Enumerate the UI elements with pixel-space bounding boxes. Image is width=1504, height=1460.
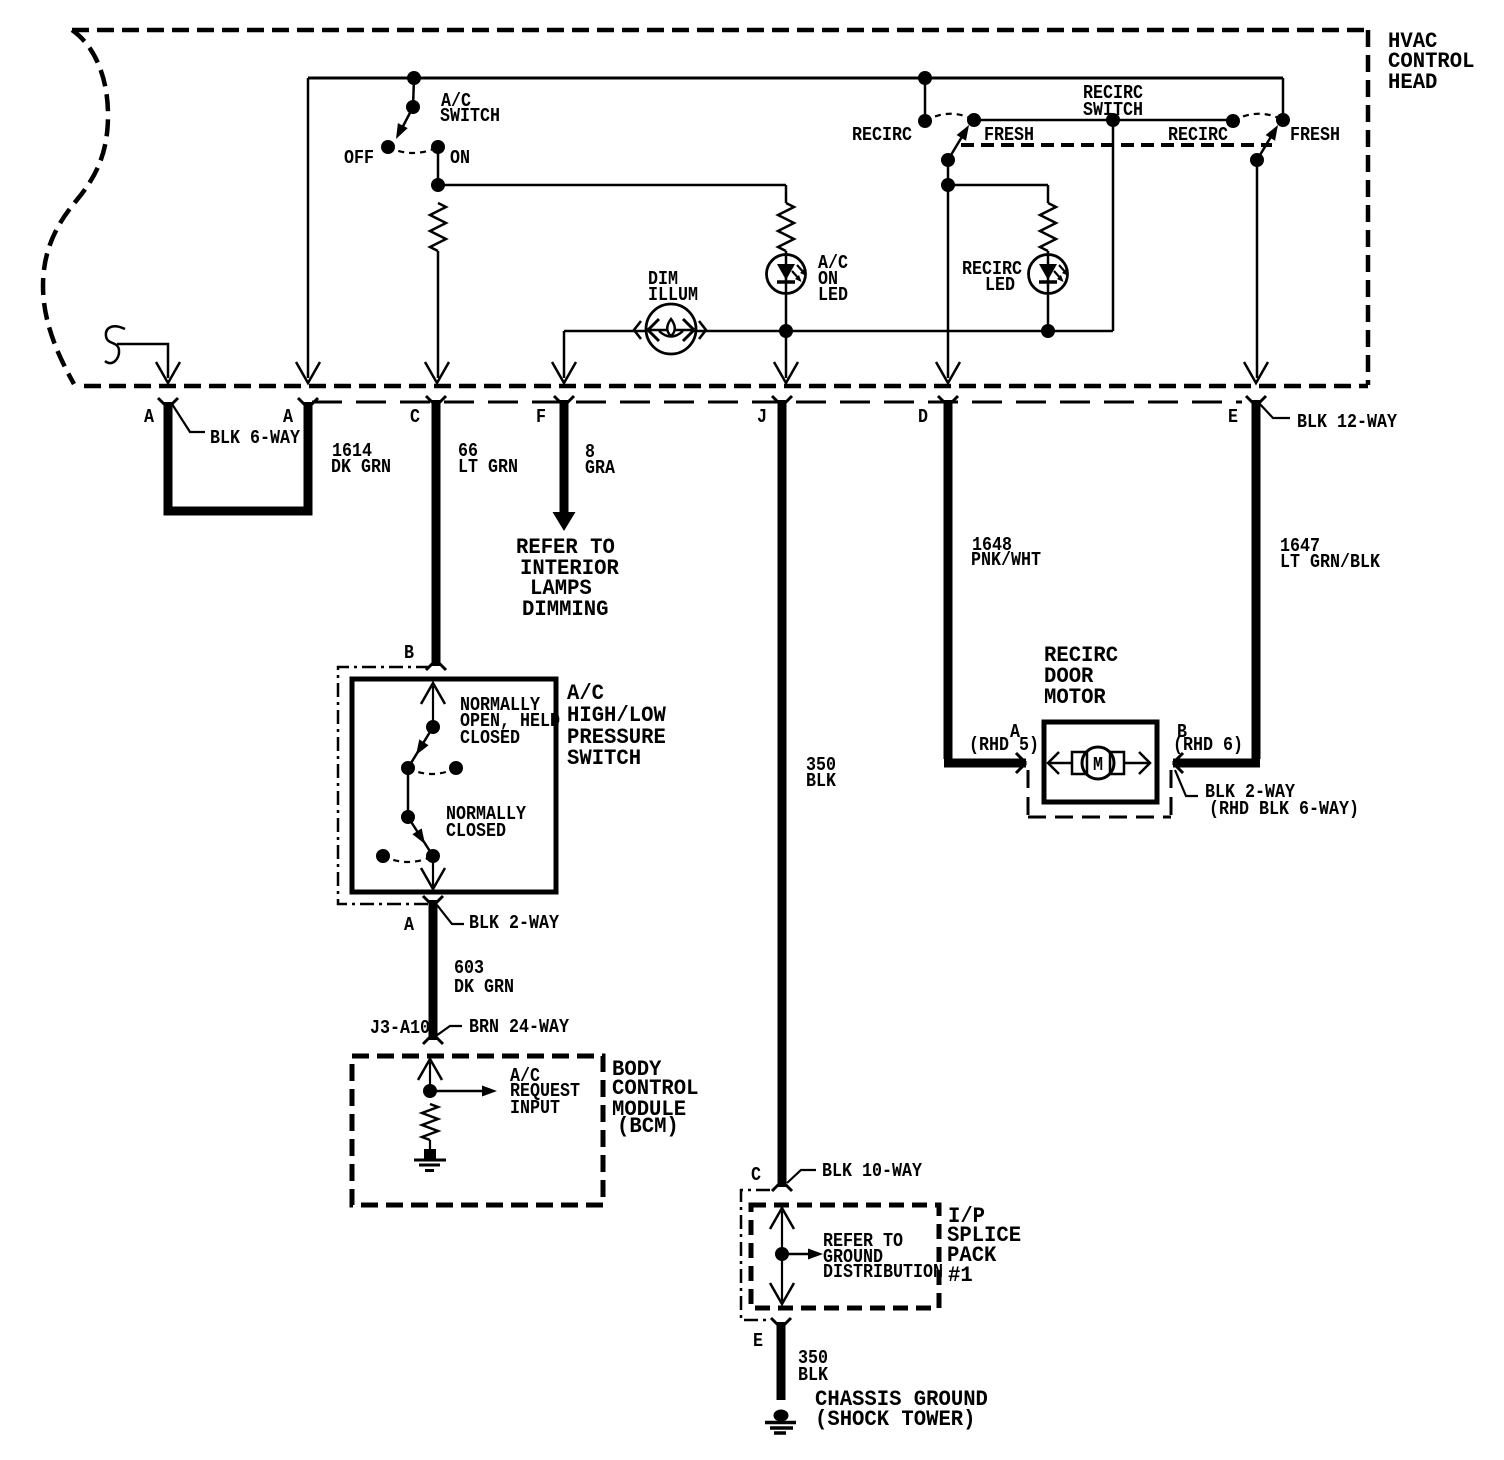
node - RECIRC contact (right pole) [1226, 114, 1240, 128]
node - FRESH contact (right pole) [1276, 113, 1290, 127]
motor travel arrow left [1048, 762, 1072, 765]
svg-text:M: M [1093, 754, 1103, 776]
HVAC control head enclosure - bottom dashed edge [84, 384, 1368, 389]
svg-text:BRN 24-WAY: BRN 24-WAY [469, 1016, 569, 1038]
arrowhead on left wiper [957, 125, 969, 141]
leader line to BLK 6-WAY [172, 404, 205, 432]
wire - down to connector pin F [563, 331, 566, 378]
svg-text:RECIRC: RECIRC [852, 124, 912, 146]
arrow into connector at pin E [1244, 362, 1268, 383]
svg-text:DK GRN: DK GRN [454, 976, 514, 998]
svg-text:SWITCH: SWITCH [440, 105, 500, 127]
connector ticks at motor pin B [1173, 753, 1183, 773]
connector ticks pin C [426, 396, 446, 406]
leader line to BLK 12-WAY [1258, 402, 1290, 418]
connector ticks pin A right [298, 398, 318, 408]
svg-text:LED: LED [985, 274, 1015, 296]
motor brush block left [1072, 752, 1087, 774]
wire - circuit 1648 PNK/WHT from pin D to motor pin A [944, 400, 1026, 763]
resistor - RECIRC LED current limit [1040, 203, 1056, 251]
resistor - BCM pull-down [422, 1104, 438, 1140]
wire - heavy jumper loop between pins A and A (BLK 6-WAY) [168, 402, 308, 511]
wire - down to connector pin J [785, 331, 788, 378]
arrowhead on lower switch arm [412, 828, 425, 844]
svg-text:SWITCH: SWITCH [1083, 99, 1143, 121]
lamp arrow right [683, 319, 694, 341]
wire - splice pack internal [781, 1211, 783, 1301]
svg-text:(RHD 5): (RHD 5) [969, 734, 1039, 756]
svg-text:LT GRN/BLK: LT GRN/BLK [1280, 551, 1380, 573]
svg-text:C: C [751, 1164, 761, 1186]
node - junction of A/C switch with top bus [407, 71, 421, 85]
wire - circuit 8 from pin F [560, 400, 569, 512]
wire - drop to connector pin A [307, 78, 310, 378]
lamp arrow left [648, 319, 659, 341]
body control module dashed box [352, 1056, 603, 1205]
node - A/C switch pivot [406, 100, 420, 114]
svg-text:DISTRIBUTION: DISTRIBUTION [823, 1261, 943, 1283]
wire - circuit 1647 LT GRN/BLK from pin E to motor pin B [1173, 400, 1260, 763]
node - FRESH contact (left pole) [967, 113, 981, 127]
svg-text:C: C [410, 406, 420, 428]
svg-text:B: B [404, 642, 414, 664]
unterminated wire squiggle inside control head [105, 326, 125, 363]
node - upper alternate contact [449, 761, 463, 775]
node - lower contact to pin A [426, 849, 440, 863]
arrowhead on A/C switch wiper [396, 123, 408, 139]
svg-text:SWITCH: SWITCH [567, 745, 641, 771]
svg-text:FRESH: FRESH [984, 124, 1034, 146]
wire - RECIRC LED top lead [1047, 185, 1050, 203]
svg-text:RECIRC: RECIRC [1168, 124, 1228, 146]
svg-text:BLK 10-WAY: BLK 10-WAY [822, 1160, 922, 1182]
node - left wiper pivot [941, 153, 955, 167]
node - junction recirc switch with top bus [918, 71, 932, 85]
node - lower switch pivot [401, 810, 415, 824]
pressure switch connector dash-dot boundary [338, 667, 430, 904]
arrow into connector at leftmost pin A [156, 362, 180, 383]
arrowhead on upper switch arm [416, 739, 429, 755]
A/C switch throw arc (dashed) [388, 147, 438, 153]
bracket right of lamp [699, 321, 706, 339]
svg-text:D: D [918, 406, 928, 428]
wire - pressure switch internal bottom lead [432, 856, 434, 886]
arrowhead on right wiper [1266, 125, 1278, 141]
wire - A/C switch pivot lead [413, 78, 414, 107]
recirc switch throw arc right (dashed) [1233, 114, 1283, 121]
motor connector dashed boundary [1028, 770, 1171, 817]
wire - through RECIRC LED [1047, 251, 1050, 331]
wire - to A/C request input [430, 1090, 482, 1093]
HVAC control head enclosure - wavy left dashed edge [43, 30, 108, 384]
connector ticks at pressure switch pin B [426, 660, 446, 670]
svg-text:(RHD 6): (RHD 6) [1173, 734, 1243, 756]
connector ticks pin D [938, 396, 958, 406]
svg-text:DIMMING: DIMMING [522, 596, 609, 622]
svg-text:GRA: GRA [585, 457, 615, 479]
recirc switch throw arc left (dashed) [925, 114, 974, 121]
connector ticks pin F [554, 396, 574, 406]
svg-text:OFF: OFF [344, 147, 374, 169]
wire - circuit 603 DK GRN to BCM [429, 900, 438, 1040]
arrow down inside pressure switch [421, 868, 445, 889]
node - BCM input junction [423, 1084, 437, 1098]
solid arrow - refer to interior lamps dimming [553, 512, 576, 531]
connector ticks pin E of splice pack [771, 1318, 791, 1328]
svg-text:PNK/WHT: PNK/WHT [971, 549, 1041, 571]
node - upper wiper rest [401, 761, 415, 775]
svg-text:FRESH: FRESH [1290, 124, 1340, 146]
switch arm - normally closed [408, 817, 433, 856]
wire - to ground distribution [782, 1253, 808, 1256]
switch arm - normally open held closed [408, 727, 433, 768]
svg-text:E: E [1228, 406, 1238, 428]
ground - chassis ground (shock tower) [774, 1410, 789, 1422]
leader line to BLK 10-WAY [787, 1170, 816, 1183]
arrow down inside splice pack [770, 1283, 794, 1304]
connector ticks pin E [1246, 396, 1266, 406]
lamp filament [659, 331, 683, 337]
node - RECIRC contact (left pole) [918, 114, 932, 128]
HVAC control head enclosure - right dashed edge [1366, 30, 1371, 385]
svg-text:ON: ON [450, 147, 470, 169]
node - lower alternate contact [376, 849, 390, 863]
svg-text:(BCM): (BCM) [617, 1113, 679, 1139]
lower throw arc (dashed) [383, 856, 433, 862]
wire - circuit 350 BLK from splice pack pin E to chassis ground [777, 1322, 786, 1400]
wire - to connector pin A (leftmost) [117, 344, 168, 378]
node - junction RECIRC LED to dim illum bus [1041, 324, 1055, 338]
ground - BCM internal [424, 1149, 436, 1159]
svg-text:(RHD BLK 6-WAY): (RHD BLK 6-WAY) [1209, 798, 1359, 820]
svg-text:HEAD: HEAD [1388, 69, 1437, 95]
connector ticks pin J [772, 396, 792, 406]
wire - circuit 350 BLK from pin J to splice pack [778, 400, 787, 1187]
arrow up inside BCM [418, 1059, 442, 1080]
connector ticks at BCM pin J3-A10 [423, 1034, 443, 1044]
bracket left of lamp [634, 321, 641, 339]
HVAC control head enclosure - top dashed edge [72, 28, 1368, 33]
wire - between switch stages [407, 768, 410, 817]
svg-text:CLOSED: CLOSED [460, 727, 520, 749]
wire - dim illumination bus [564, 330, 1113, 333]
svg-text:LED: LED [818, 284, 848, 306]
svg-text:LT GRN: LT GRN [458, 456, 518, 478]
svg-text:#1: #1 [948, 1262, 973, 1288]
wire - pressure switch internal top lead [432, 686, 434, 727]
wire - switch bus junction down to dim illum bus [1112, 120, 1115, 331]
svg-text:ILLUM: ILLUM [648, 284, 698, 306]
switch wiper arm (left pole) [948, 130, 966, 160]
connector ticks at splice pack pin C [772, 1181, 792, 1191]
node - splice junction [775, 1247, 789, 1261]
svg-text:A: A [404, 914, 414, 936]
arrow up inside pressure switch [421, 683, 445, 704]
connector ticks at motor pin A [1016, 753, 1026, 773]
wire - to RECIRC contact [924, 78, 927, 121]
node - A/C switch ON contact [431, 140, 445, 154]
svg-text:E: E [753, 1330, 763, 1352]
wire - BCM input lead [429, 1062, 431, 1091]
arrow into connector at pin C [425, 362, 449, 383]
svg-text:(SHOCK TOWER): (SHOCK TOWER) [815, 1406, 976, 1432]
resistor - A/C ON LED current limit [778, 203, 794, 251]
connector ticks pin A left [158, 398, 178, 408]
motor M - recirc door motor [1082, 747, 1114, 779]
connector face dashed line [312, 401, 1242, 404]
arrow into connector at pin D [936, 362, 960, 383]
node - A/C switch OFF contact [381, 140, 395, 154]
switch S1 A/C switch wiper arm [399, 107, 413, 134]
svg-text:CLOSED: CLOSED [446, 820, 506, 842]
node - junction on switch bus [1106, 113, 1120, 127]
arrowhead refer to ground distribution [808, 1249, 823, 1260]
node - right wiper pivot [1250, 153, 1264, 167]
arrow up inside splice pack [770, 1208, 794, 1229]
svg-text:DK GRN: DK GRN [331, 456, 391, 478]
wire - down to connector pin C [437, 251, 440, 378]
motor travel arrow right [1124, 762, 1150, 765]
arrowhead A/C request input [482, 1086, 497, 1097]
wire - down to connector pin D [947, 185, 950, 378]
svg-text:BLK 2-WAY: BLK 2-WAY [469, 912, 559, 934]
wire - to RECIRC LED branch [948, 184, 1048, 187]
wire - through A/C ON LED [785, 251, 788, 331]
wire - recirc switch common bus [974, 119, 1233, 122]
svg-text:BLK: BLK [798, 1364, 828, 1386]
connector ticks below pressure switch [423, 896, 443, 906]
wire - down to connector pin E [1256, 160, 1259, 378]
node - upper contact of NO/held-closed switch [426, 720, 440, 734]
svg-text:F: F [536, 406, 546, 428]
svg-text:MOTOR: MOTOR [1044, 684, 1106, 710]
wire - left wiper to junction [947, 160, 950, 185]
LED - RECIRC indicator [1029, 255, 1068, 294]
splice pack connector dash-dot boundary [741, 1190, 770, 1320]
leader line to BRN 24-WAY [433, 1026, 462, 1038]
LED - A/C ON indicator [767, 255, 806, 294]
motor brush block right [1110, 752, 1124, 774]
node - junction wiper/LED branch [941, 178, 955, 192]
svg-text:J3-A10: J3-A10 [370, 1017, 430, 1039]
node - junction A/C ON LED to dim illum bus [779, 324, 793, 338]
resistor - A/C switch branch [430, 203, 446, 251]
wire - circuit 66 from pin C to pressure switch pin B [432, 400, 441, 666]
svg-text:A: A [144, 406, 154, 428]
lamp - DIM ILLUM bulb [646, 304, 696, 354]
arrow into connector at pin F [552, 362, 576, 383]
wire - horizontal from ON contact to A/C ON LED branch [438, 184, 786, 187]
dashed gang line of recirc switch [961, 143, 1272, 147]
recirc door motor box [1044, 722, 1157, 802]
wire - resistor to ground [429, 1140, 431, 1151]
arrow into connector at pin A [296, 362, 320, 383]
wire - A/C ON LED branch top lead [785, 185, 788, 203]
arrow into connector at pin J [774, 362, 798, 383]
node - junction at ON branch [431, 178, 445, 192]
A/C high/low pressure switch box [352, 679, 556, 892]
leader line to BLK 2-WAY (motor) [1175, 770, 1198, 796]
leader line to BLK 2-WAY [437, 905, 464, 924]
svg-text:J: J [757, 406, 767, 428]
svg-text:BLK: BLK [806, 770, 836, 792]
wire - top bus inside control head [308, 77, 1283, 80]
upper throw arc (dashed) [408, 768, 456, 774]
wire - from ON contact down [437, 147, 440, 185]
I/P splice pack dashed box [751, 1205, 939, 1308]
svg-text:BLK 6-WAY: BLK 6-WAY [210, 427, 300, 449]
wire - top bus down to FRESH right contact [1282, 78, 1285, 120]
switch wiper arm (right pole) [1257, 130, 1275, 160]
svg-text:A: A [283, 406, 293, 428]
svg-text:BLK 12-WAY: BLK 12-WAY [1297, 411, 1397, 433]
svg-text:INPUT: INPUT [510, 1097, 560, 1119]
